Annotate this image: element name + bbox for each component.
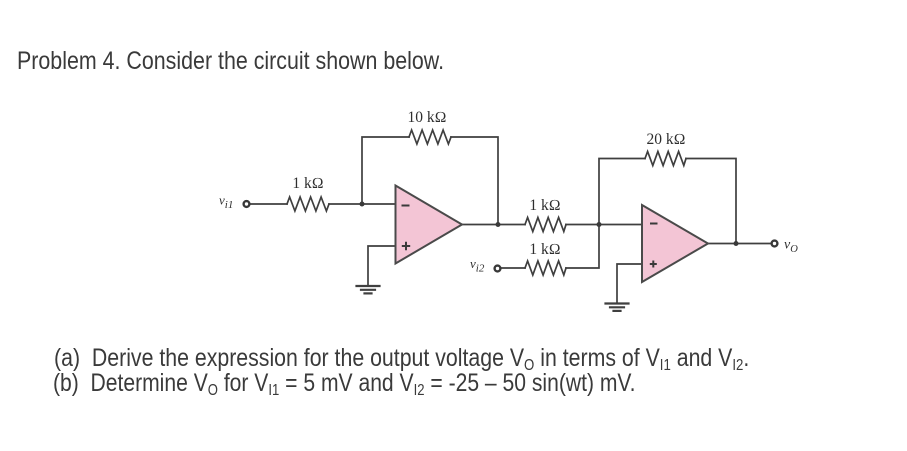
svg-text:10 kΩ: 10 kΩ xyxy=(407,109,446,126)
svg-text:1 kΩ: 1 kΩ xyxy=(292,175,323,192)
svg-text:20 kΩ: 20 kΩ xyxy=(646,131,685,148)
svg-text:1 kΩ: 1 kΩ xyxy=(529,241,560,258)
svg-text:1 kΩ: 1 kΩ xyxy=(529,197,560,214)
svg-text:vi2: vi2 xyxy=(470,256,485,275)
svg-text:vO: vO xyxy=(784,238,798,256)
svg-text:vi1: vi1 xyxy=(219,193,233,212)
